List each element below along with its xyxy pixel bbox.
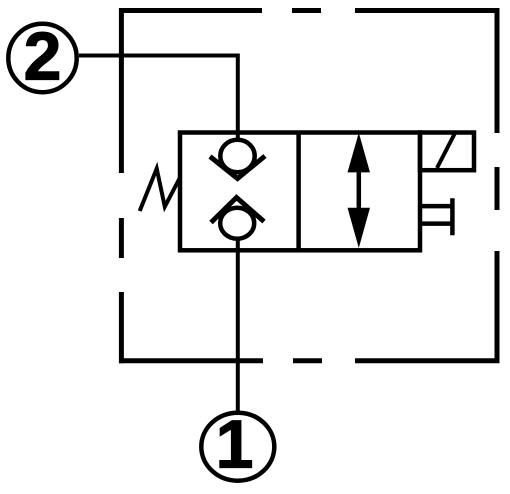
check valve CV1 (upper) seat bbox=[210, 156, 265, 179]
check valve CV2 (lower) seat bbox=[211, 198, 264, 223]
double-headed flow arrow bbox=[348, 133, 371, 248]
spring bbox=[140, 169, 180, 211]
pilot port (plugged) bbox=[420, 198, 452, 235]
check valve CV2 (lower) ball bbox=[220, 208, 254, 239]
valve envelope (dashed boundary) top edge bbox=[119, 8, 500, 13]
port circle 2 bbox=[8, 19, 76, 95]
valve envelope (dashed boundary) bottom edge bbox=[119, 358, 500, 363]
valve body outline (two position boxes) bbox=[180, 133, 420, 251]
port circle 1 bbox=[201, 407, 274, 483]
check valve CV1 (upper) ball bbox=[220, 140, 254, 172]
svg-text:2: 2 bbox=[24, 19, 62, 95]
wire: port 2 to upper check valve bbox=[79, 54, 238, 142]
wire: lower check valve to port 1 bbox=[236, 239, 240, 411]
solenoid coil box bbox=[420, 133, 474, 171]
svg-text:1: 1 bbox=[216, 407, 254, 483]
valve envelope (dashed boundary) right edge bbox=[495, 8, 500, 363]
valve envelope (dashed boundary) left edge bbox=[119, 8, 124, 363]
